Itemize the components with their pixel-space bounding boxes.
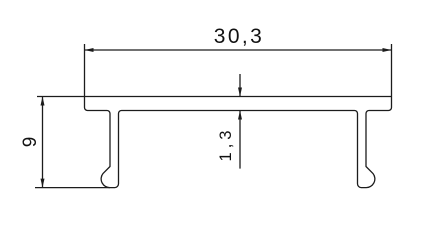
arrow 9 bottom [41, 179, 45, 188]
dim 9 bottom extension line [35, 187, 110, 189]
arrow 9 top [41, 97, 45, 106]
dim 30,3 extension line right [391, 44, 393, 97]
arrow 30,3 right [383, 48, 392, 52]
dim 9 dimension line [42, 97, 44, 188]
dim 30,3 dimension line [85, 49, 392, 51]
dim 1,3 dimension line lower segment / leader [239, 111, 241, 169]
svg-text:1,3: 1,3 [217, 127, 235, 162]
arrow 30,3 left [85, 48, 94, 52]
dim 30,3 extension line left [84, 44, 86, 97]
dim 1,3 dimension line upper segment [239, 74, 241, 97]
svg-text:30,3: 30,3 [214, 25, 264, 48]
profile top surface (with left extension of dim 9) [37, 96, 392, 98]
arrow 1,3 up [238, 111, 242, 120]
profile outline [85, 97, 392, 188]
svg-text:9: 9 [20, 137, 41, 148]
arrow 1,3 down [238, 88, 242, 97]
